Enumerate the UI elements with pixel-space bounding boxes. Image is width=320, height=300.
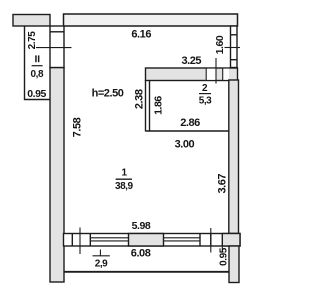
band window glazing lines right [164,237,201,239]
svg-text:6.16: 6.16 [131,28,151,40]
band gray pier middle [129,234,164,247]
right wall window column [231,26,238,68]
svg-text:5.98: 5.98 [132,220,151,232]
svg-text:1.86: 1.86 [153,96,165,115]
svg-text:1.60: 1.60 [214,35,226,54]
door tick right [215,58,217,84]
balcony fraction line [93,255,110,257]
svg-text:2.75: 2.75 [27,31,38,50]
door jamb left [205,68,207,81]
svg-text:2,9: 2,9 [95,258,108,269]
room2 top partition bar [146,68,238,81]
balcony label tick [99,250,101,256]
svg-text:3.00: 3.00 [175,139,195,151]
svg-text:1: 1 [121,167,127,178]
svg-text:0,8: 0,8 [31,69,44,80]
loggia II outline [25,26,51,100]
long tick left [79,228,81,255]
svg-text:2.86: 2.86 [180,117,200,129]
right window midline / 1.60 leader [225,47,241,49]
svg-text:3.25: 3.25 [181,55,201,67]
bottom-right column [229,246,239,283]
cell divider x222.7 [222,68,224,81]
stub below band [221,246,223,252]
room2 fraction line [199,93,211,95]
room2 bottom line [146,130,230,132]
svg-text:h=2.50: h=2.50 [92,87,124,99]
svg-text:38,9: 38,9 [115,181,134,192]
svg-text:0.95: 0.95 [218,247,229,266]
long tick right [210,228,212,253]
band gray pier right [222,234,240,247]
svg-text:0.95: 0.95 [27,88,46,100]
svg-text:5,3: 5,3 [199,95,212,106]
left window midline / 2.75 leader [36,47,72,49]
room2 left partition [145,80,147,132]
svg-text:6.08: 6.08 [131,248,151,260]
balcony slab bar top-left [13,15,50,27]
svg-text:3.67: 3.67 [217,174,229,194]
band window glazing lines left [90,237,128,239]
room1 fraction line [116,178,132,180]
svg-text:7.58: 7.58 [72,117,84,137]
right wall gray [229,80,239,234]
svg-text:2: 2 [202,83,208,94]
left wall window [50,26,64,68]
loggia fraction line [32,65,43,67]
left wall gray [50,68,64,283]
balcony outer line [64,271,229,273]
loggia label II [35,55,37,62]
band dividers [71,234,73,247]
door opening in room2 bar [206,69,216,80]
svg-text:2.38: 2.38 [133,89,145,109]
white cell right of door [223,69,229,80]
bottom wall band [64,234,241,247]
top wall [64,14,238,26]
